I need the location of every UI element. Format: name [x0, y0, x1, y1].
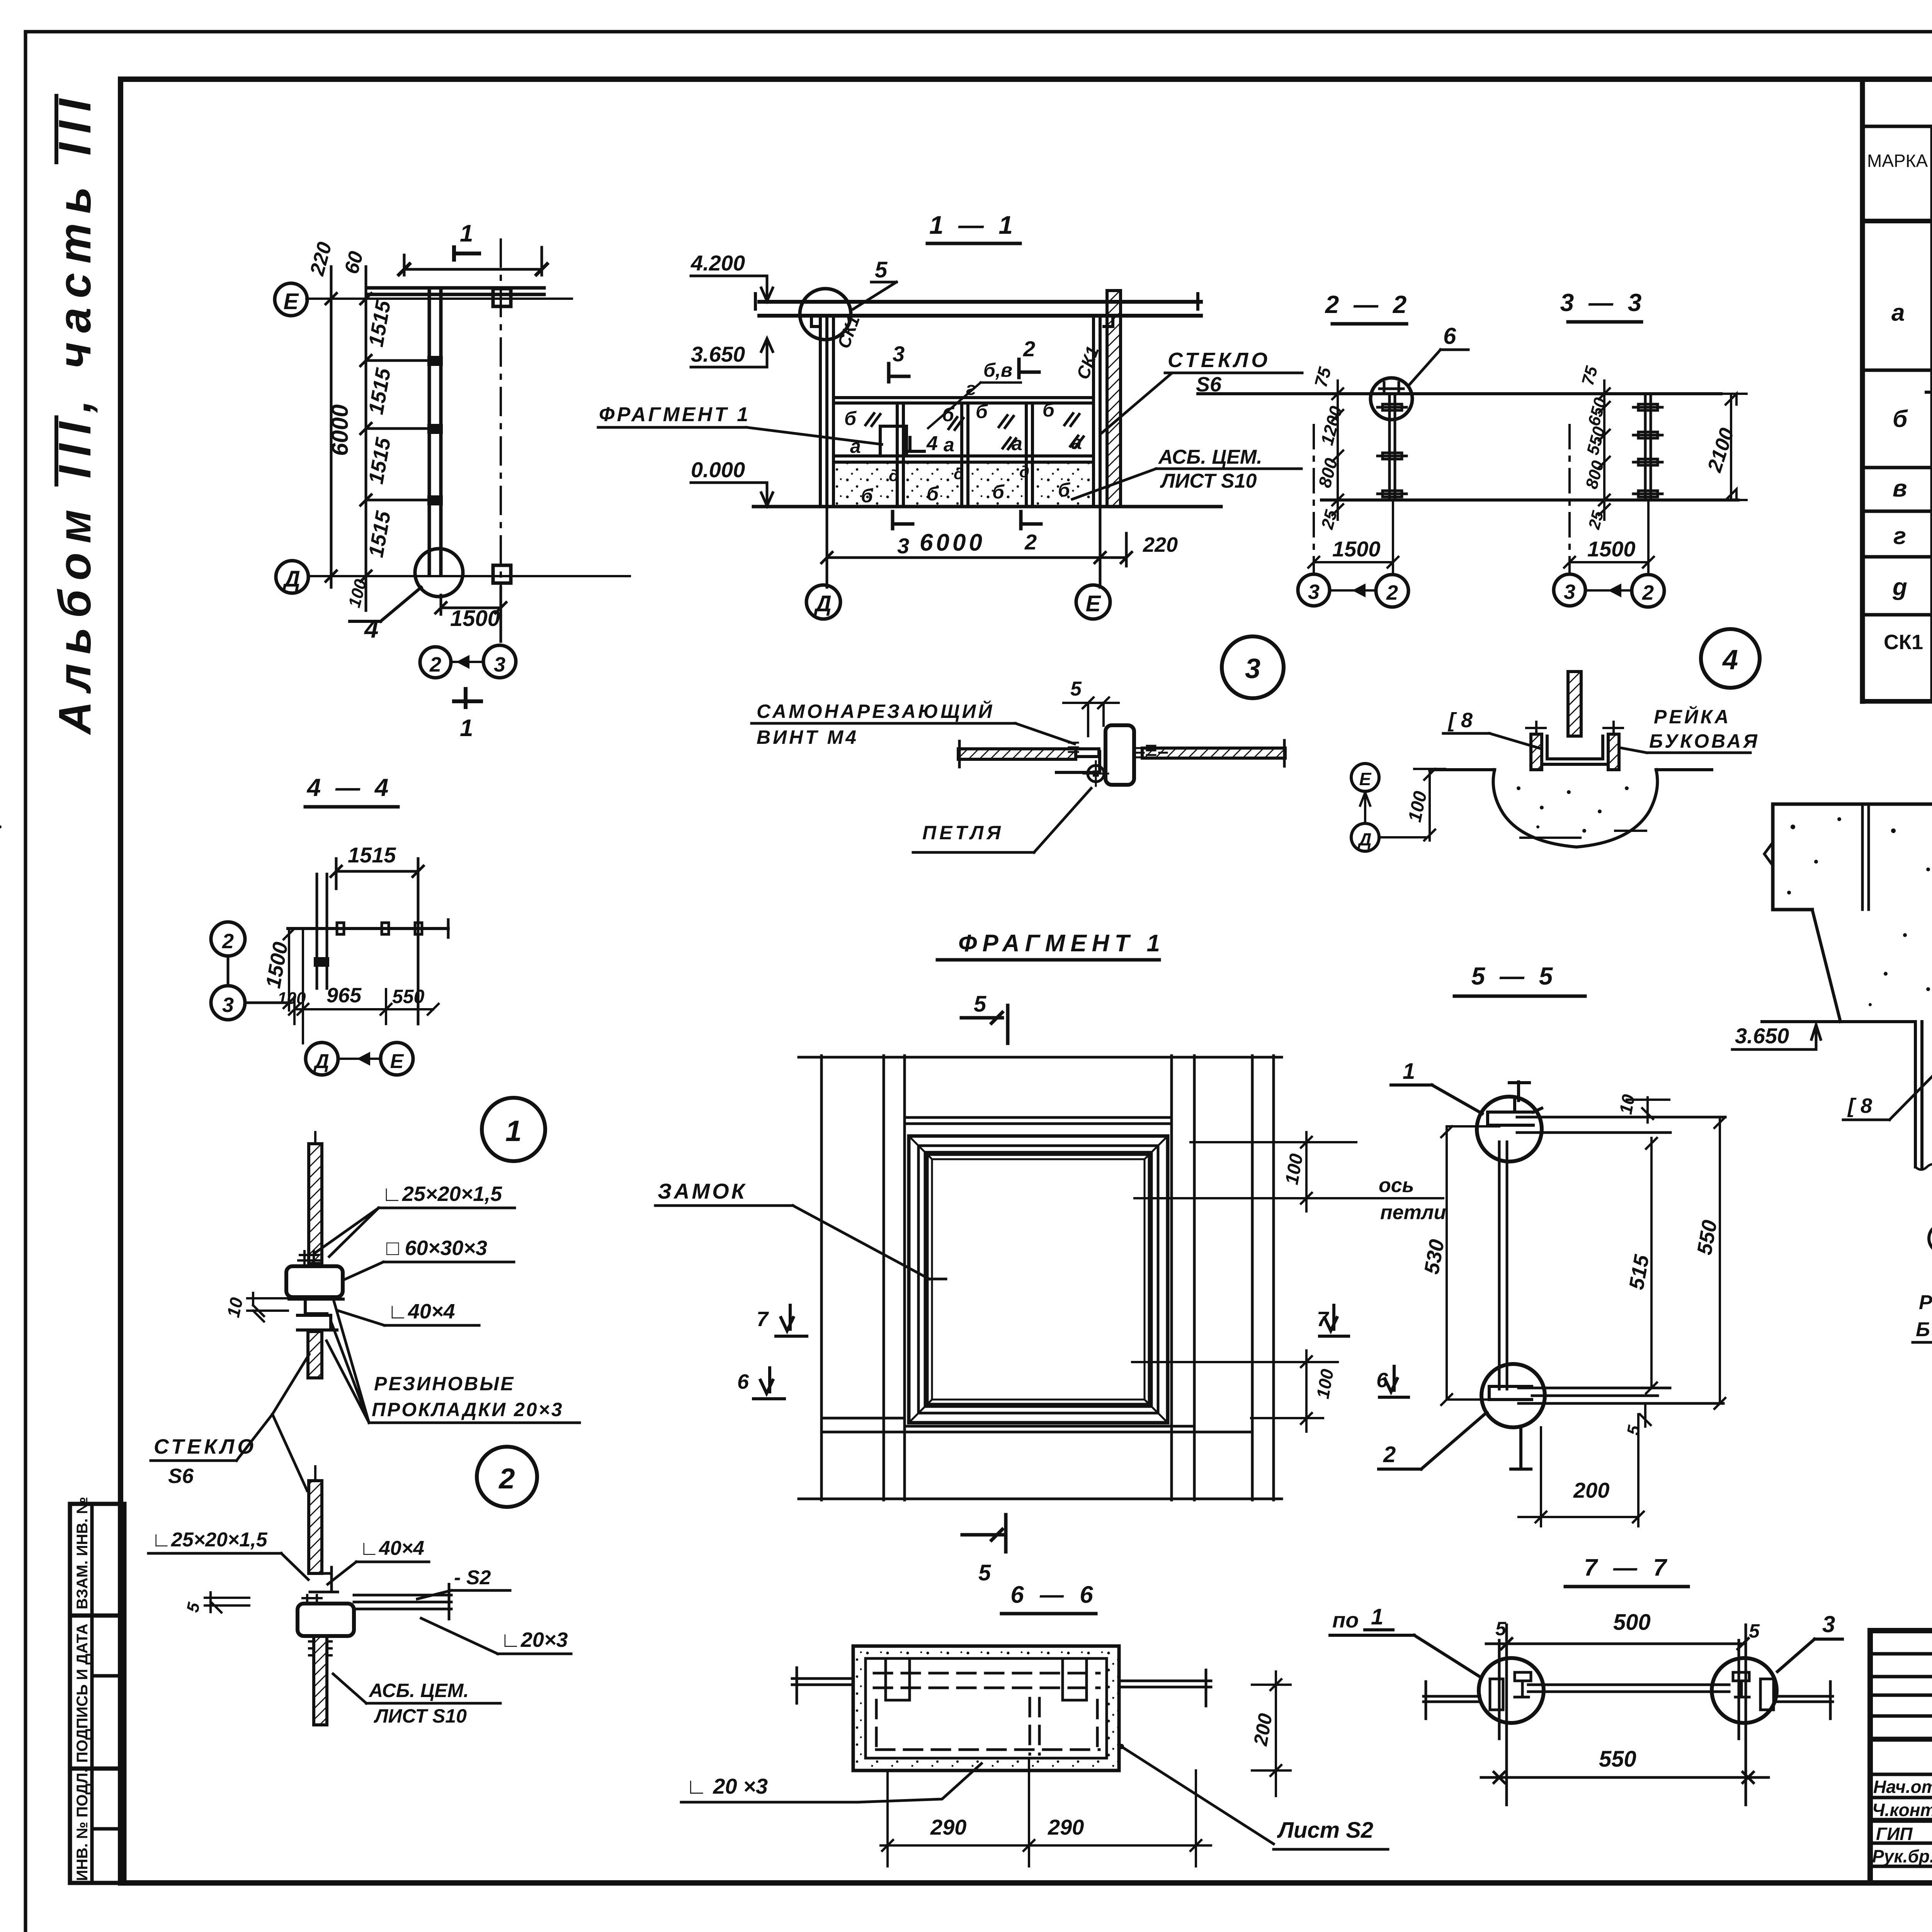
svg-text:5: 5: [978, 1560, 991, 1585]
svg-text:∟40×4: ∟40×4: [388, 1300, 455, 1323]
svg-text:1: 1: [505, 1115, 522, 1148]
top rail: [833, 398, 1094, 403]
marker 5 bottom: [962, 1515, 1006, 1552]
dim 10: [1627, 1097, 1669, 1122]
svg-text:6 — 6: 6 — 6: [1010, 1582, 1097, 1608]
beam end hooks: [811, 316, 1113, 327]
svg-text:ЛИСТ S10: ЛИСТ S10: [374, 1705, 467, 1727]
dim 10: [247, 1293, 288, 1321]
svg-text:0.000: 0.000: [691, 457, 745, 482]
top dim line: [404, 247, 542, 275]
T-bars: [1423, 1682, 1480, 1719]
dim 530: [1441, 1126, 1499, 1405]
vedomost table grid: [1862, 82, 1932, 701]
svg-text:5: 5: [974, 992, 986, 1017]
svg-text:3: 3: [1245, 653, 1260, 684]
top pin: [1509, 1082, 1529, 1100]
column below: [1915, 1022, 1932, 1167]
svg-text:МАРКА: МАРКА: [1867, 151, 1928, 171]
grid circles D E: [806, 585, 840, 619]
wall beam top: [367, 288, 544, 294]
album sidebar text: [49, 90, 100, 735]
svg-text:2: 2: [1386, 581, 1398, 604]
svg-text:ПЕТЛЯ: ПЕТЛЯ: [922, 822, 1004, 844]
floor line 3.650: [1762, 1020, 1932, 1023]
svg-text:3: 3: [494, 653, 505, 676]
dim line 6000: [326, 267, 337, 587]
svg-text:290: 290: [930, 1815, 966, 1839]
svg-text:б: б: [844, 408, 857, 429]
2-2 dims left: [1332, 381, 1343, 520]
panel mullions: [897, 403, 1032, 507]
svg-text:1: 1: [1371, 1604, 1383, 1629]
svg-text:200: 200: [1573, 1478, 1609, 1502]
grid circles 2,3 bottom: [420, 647, 451, 678]
svg-text:500: 500: [1613, 1610, 1651, 1635]
svg-text:а: а: [1012, 433, 1022, 454]
svg-text:Д: Д: [1357, 829, 1371, 849]
svg-text:6: 6: [1443, 323, 1456, 349]
svg-text:1: 1: [1403, 1059, 1415, 1084]
svg-text:3.650: 3.650: [1735, 1024, 1789, 1048]
angle piece: [1056, 749, 1100, 772]
svg-text:Д: Д: [813, 591, 832, 616]
svg-text:Д: Д: [282, 566, 300, 592]
svg-text:100: 100: [277, 989, 306, 1008]
svg-text:S6: S6: [168, 1464, 194, 1488]
dim 6000 / 220: [821, 507, 1132, 587]
svg-text:2 — 2: 2 — 2: [1325, 291, 1411, 318]
corner stiffeners: [886, 1658, 910, 1700]
3-3 dims left: [1599, 381, 1610, 520]
svg-text:5: 5: [1070, 678, 1082, 700]
inner glyphs: [1490, 1679, 1503, 1710]
dim 5: [205, 1592, 249, 1612]
svg-text:5 — 5: 5 — 5: [1471, 962, 1557, 990]
svg-text:ИНВ. № ПОДЛ.: ИНВ. № ПОДЛ.: [74, 1769, 91, 1881]
svg-text:5: 5: [1495, 1618, 1507, 1639]
column bottom: [493, 565, 511, 583]
svg-text:ЗАМОК: ЗАМОК: [658, 1179, 747, 1203]
sheet S2 to right: [354, 1584, 451, 1619]
fasteners: [337, 923, 344, 934]
svg-text:а: а: [850, 435, 861, 457]
svg-text:СК1: СК1: [1884, 631, 1923, 654]
svg-text:ПРОКЛАДКИ 20×3: ПРОКЛАДКИ 20×3: [372, 1399, 564, 1420]
axis dash-dot: [500, 240, 502, 641]
asb strip below: [314, 1636, 327, 1725]
svg-text:3: 3: [897, 534, 909, 558]
svg-text:∟40×4: ∟40×4: [359, 1537, 424, 1560]
svg-text:Нач.отд: Нач.отд: [1873, 1777, 1932, 1797]
svg-text:Альбом III, часть III: Альбом III, часть III: [49, 90, 100, 735]
grid circles 2,3: [211, 922, 245, 956]
partition vertical double line: [429, 290, 441, 575]
svg-text:по: по: [1332, 1608, 1359, 1632]
svg-text:1500: 1500: [1587, 537, 1636, 561]
grid circles D-E: [1929, 1224, 1932, 1253]
svg-text:3.650: 3.650: [691, 342, 745, 366]
svg-text:4: 4: [926, 432, 938, 455]
rail: [1528, 1685, 1729, 1692]
center post block: [1105, 725, 1134, 785]
svg-text:4 — 4: 4 — 4: [306, 774, 393, 801]
svg-text:1500: 1500: [1332, 537, 1381, 561]
upper glass strip: [309, 1144, 322, 1264]
floor line: [1430, 768, 1712, 771]
svg-text:д: д: [1019, 463, 1029, 481]
lower glass strip: [308, 1332, 322, 1378]
dim 550: [1714, 1117, 1725, 1409]
section marker 2 bottom: [1021, 512, 1041, 529]
svg-text:220: 220: [1143, 533, 1178, 556]
2-2 post on axis 2: [1389, 394, 1395, 500]
node circles: [1477, 1097, 1542, 1162]
svg-text:САМОНАРЕЗАЮЩИЙ: САМОНАРЕЗАЮЩИЙ: [757, 700, 994, 722]
beam: [759, 302, 1201, 316]
verticals: [821, 1056, 1274, 1500]
node 5 circle: [800, 289, 851, 340]
dim 1500 bottom: [435, 587, 506, 641]
partition joints: [427, 356, 443, 366]
svg-text:г: г: [966, 379, 976, 399]
hinge: [1088, 765, 1104, 782]
asbestos stipple panels: [835, 464, 896, 505]
svg-text:7: 7: [757, 1308, 769, 1331]
svg-text:д: д: [954, 464, 964, 483]
section marker 2 top: [1019, 359, 1039, 378]
section marker 1 bottom: [454, 689, 481, 707]
3-3 post on axis 2: [1645, 394, 1651, 500]
grid line D: [308, 575, 630, 577]
floor line: [753, 505, 1221, 509]
svg-text:4.200: 4.200: [690, 251, 745, 275]
svg-text:ФРАГМЕНТ 1: ФРАГМЕНТ 1: [599, 403, 750, 426]
svg-text:б,в: б,в: [983, 359, 1012, 381]
svg-text:АСБ. ЦЕМ.: АСБ. ЦЕМ.: [1158, 446, 1262, 468]
tube: [298, 1604, 354, 1636]
svg-text:6: 6: [737, 1370, 749, 1393]
dim 515: [1646, 1138, 1657, 1393]
bottom bracket: [1489, 1386, 1532, 1400]
dim 5 bottom: [1640, 1403, 1651, 1427]
svg-text:2: 2: [1024, 530, 1037, 554]
3-3 axis and grid: [1568, 425, 1571, 572]
svg-text:СТЕКЛО: СТЕКЛО: [1168, 349, 1270, 372]
dim line 1515s: [361, 267, 371, 611]
left plate: [958, 749, 1076, 759]
svg-text:10: 10: [1616, 1093, 1639, 1116]
svg-text:[ 8: [ 8: [1447, 709, 1473, 732]
dim 200: [1252, 1672, 1291, 1796]
svg-text:[ 8: [ 8: [1847, 1094, 1872, 1117]
svg-text:∟ 20 ×3: ∟ 20 ×3: [686, 1774, 768, 1798]
svg-text:4: 4: [1722, 645, 1738, 675]
svg-text:ВЗАМ. ИНВ. №: ВЗАМ. ИНВ. №: [74, 1497, 91, 1609]
right dims: [1134, 1132, 1443, 1211]
svg-text:2: 2: [498, 1463, 515, 1495]
svg-text:б: б: [976, 401, 988, 422]
column top: [493, 289, 511, 306]
concrete blob: [1493, 770, 1657, 847]
vedomost rows text: [1884, 249, 1932, 698]
svg-text:2: 2: [429, 653, 441, 676]
svg-text:ФРАГМЕНТ 1: ФРАГМЕНТ 1: [958, 930, 1165, 957]
svg-text:1: 1: [460, 715, 473, 742]
section marker 3 bottom: [893, 512, 913, 529]
dashed sheet lines: [874, 1673, 1099, 1754]
svg-text:3: 3: [222, 993, 234, 1017]
door frame: [880, 426, 906, 456]
svg-text:в: в: [1893, 475, 1907, 502]
post: [1499, 1142, 1507, 1389]
tie lines: [366, 361, 429, 500]
right post + wall: [1094, 316, 1100, 507]
svg-text:а: а: [1071, 432, 1082, 453]
glass S6 label shared: [151, 1354, 309, 1491]
svg-text:- S2: - S2: [454, 1566, 491, 1589]
grid circles D,E: [306, 1043, 338, 1075]
svg-text:Е: Е: [284, 289, 299, 314]
channel G8: [1542, 736, 1608, 764]
svg-text:РЕЙКА: РЕЙКА: [1654, 706, 1731, 728]
svg-text:1: 1: [460, 220, 473, 247]
svg-text:Ч.контр: Ч.контр: [1872, 1800, 1932, 1820]
svg-text:ЛИСТ S10: ЛИСТ S10: [1160, 470, 1257, 492]
svg-text:2: 2: [1023, 337, 1035, 361]
grid line E: [306, 298, 572, 300]
svg-text:∟20×3: ∟20×3: [500, 1628, 568, 1651]
dim 290+290: [881, 1760, 1211, 1866]
partition horizontal faces: [1198, 392, 1721, 395]
svg-text:6000: 6000: [920, 529, 985, 556]
svg-text:Е: Е: [1086, 591, 1102, 616]
svg-text:РЕЗИНОВЫЕ: РЕЗИНОВЫЕ: [374, 1373, 515, 1395]
section marker 1 top: [454, 220, 479, 260]
svg-text:ГИП: ГИП: [1876, 1824, 1913, 1844]
dim 1500: [284, 929, 294, 1010]
svg-text:б: б: [1893, 406, 1908, 432]
svg-text:1 — 1: 1 — 1: [929, 211, 1017, 239]
glass strip vertical: [317, 874, 327, 988]
mid rail: [833, 456, 1094, 462]
lower-right markers: [1132, 1350, 1338, 1432]
svg-text:3: 3: [893, 342, 905, 366]
svg-text:петли: петли: [1380, 1201, 1446, 1224]
slab band: [1773, 804, 1932, 910]
svg-text:РЕЙКА: РЕЙКА: [1919, 1291, 1932, 1314]
bolt heads above tube: [298, 1251, 320, 1266]
angle L40x4 below: [289, 1299, 343, 1330]
svg-text:Лист S2: Лист S2: [1277, 1818, 1373, 1843]
concrete dots: [1787, 817, 1932, 1006]
svg-text:550: 550: [1599, 1747, 1636, 1772]
svg-text:б: б: [992, 481, 1005, 503]
svg-text:а: а: [944, 434, 954, 456]
vedomost table header text: [1867, 90, 1932, 220]
posts vertical: [1499, 1625, 1746, 1805]
svg-text:Е: Е: [1359, 769, 1372, 789]
dim 100: [1414, 769, 1445, 840]
dim 200: [1519, 1414, 1644, 1526]
svg-text:∟25×20×1,5: ∟25×20×1,5: [382, 1182, 502, 1206]
svg-text:3 — 3: 3 — 3: [1560, 289, 1646, 316]
grid circle D: [276, 561, 308, 593]
right plate: [1142, 748, 1285, 758]
screw threads: [1069, 743, 1167, 757]
svg-text:ПОДПИСЬ И ДАТА: ПОДПИСЬ И ДАТА: [74, 1624, 91, 1763]
svg-text:5: 5: [875, 257, 888, 282]
svg-text:550: 550: [392, 986, 425, 1007]
top bracket: [1488, 1100, 1542, 1125]
marker 4 in panel: [904, 437, 924, 451]
svg-text:3: 3: [1564, 580, 1575, 604]
grid circles E D with arrow: [1351, 764, 1379, 791]
left stamp strip: [70, 1504, 124, 1883]
partition trace: [288, 927, 448, 930]
vedomost sketches: [1926, 228, 1932, 681]
svg-text:ВИНТ М4: ВИНТ М4: [757, 726, 859, 748]
svg-text:∟25×20×1,5: ∟25×20×1,5: [151, 1529, 268, 1551]
glass slashes: [866, 413, 1083, 449]
tube 60x30: [286, 1266, 343, 1297]
svg-text:Д: Д: [313, 1050, 329, 1073]
haunch trapezoid: [1812, 910, 1932, 1022]
svg-text:a: a: [1891, 299, 1905, 326]
svg-text:965: 965: [327, 984, 362, 1007]
beech strips: [1531, 734, 1542, 770]
svg-text:АСБ. ЦЕМ.: АСБ. ЦЕМ.: [368, 1680, 469, 1701]
node 4 circle: [1701, 629, 1760, 688]
svg-text:2: 2: [1642, 581, 1654, 604]
svg-text:б: б: [1058, 479, 1071, 501]
T-bars: [792, 1668, 853, 1703]
node 6 circle on top fastener: [1371, 378, 1412, 420]
3-3 dim right 2100: [1721, 394, 1747, 500]
svg-text:7 — 7: 7 — 7: [1584, 1554, 1671, 1581]
svg-text:6000: 6000: [327, 405, 353, 456]
svg-text:б: б: [861, 485, 874, 507]
node circle 4: [415, 549, 463, 597]
bottom pin: [1511, 1427, 1531, 1469]
svg-text:1515: 1515: [348, 843, 396, 867]
svg-text:Рук.бр.: Рук.бр.: [1872, 1846, 1932, 1866]
svg-text:3: 3: [1822, 1611, 1835, 1637]
svg-text:2: 2: [1383, 1442, 1396, 1467]
svg-text:д: д: [889, 466, 899, 485]
box: [853, 1646, 1119, 1770]
glass strip: [309, 1481, 322, 1573]
door nested frames: [909, 1136, 1168, 1423]
svg-text:□ 60×30×3: □ 60×30×3: [386, 1236, 487, 1260]
svg-text:4: 4: [364, 614, 379, 643]
svg-text:g: g: [1892, 574, 1907, 600]
svg-text:БУКОВАЯ: БУКОВАЯ: [1649, 730, 1760, 752]
svg-text:Е: Е: [390, 1050, 404, 1073]
svg-text:б: б: [927, 483, 939, 505]
grid circle E: [275, 283, 307, 316]
svg-text:БУКОВАЯ: БУКОВАЯ: [1916, 1318, 1932, 1341]
angle at glass bottom: [309, 1567, 338, 1592]
partition post above: [1568, 672, 1581, 736]
section marker 3 top: [889, 364, 909, 382]
svg-text:3: 3: [1308, 580, 1320, 604]
svg-text:б: б: [942, 404, 955, 425]
2-2 axis dashdot and grid: [1313, 425, 1315, 572]
rails right bottom: [1519, 1388, 1723, 1403]
svg-text:б: б: [1043, 399, 1055, 421]
dim 100 965 550: [289, 929, 439, 1043]
fasteners 2-2: [1378, 404, 1406, 497]
svg-text:5: 5: [1749, 1620, 1760, 1642]
svg-text:2: 2: [222, 930, 234, 953]
title block: [1870, 1631, 1932, 1883]
svg-text:290: 290: [1048, 1815, 1084, 1839]
horizontals: [799, 1057, 1282, 1499]
circles: [1479, 1658, 1544, 1723]
rails right top: [1517, 1117, 1725, 1133]
svg-text:1500: 1500: [450, 606, 500, 631]
svg-text:ось: ось: [1379, 1174, 1414, 1197]
left post SK1: [820, 316, 833, 507]
svg-text:г: г: [1893, 523, 1906, 549]
